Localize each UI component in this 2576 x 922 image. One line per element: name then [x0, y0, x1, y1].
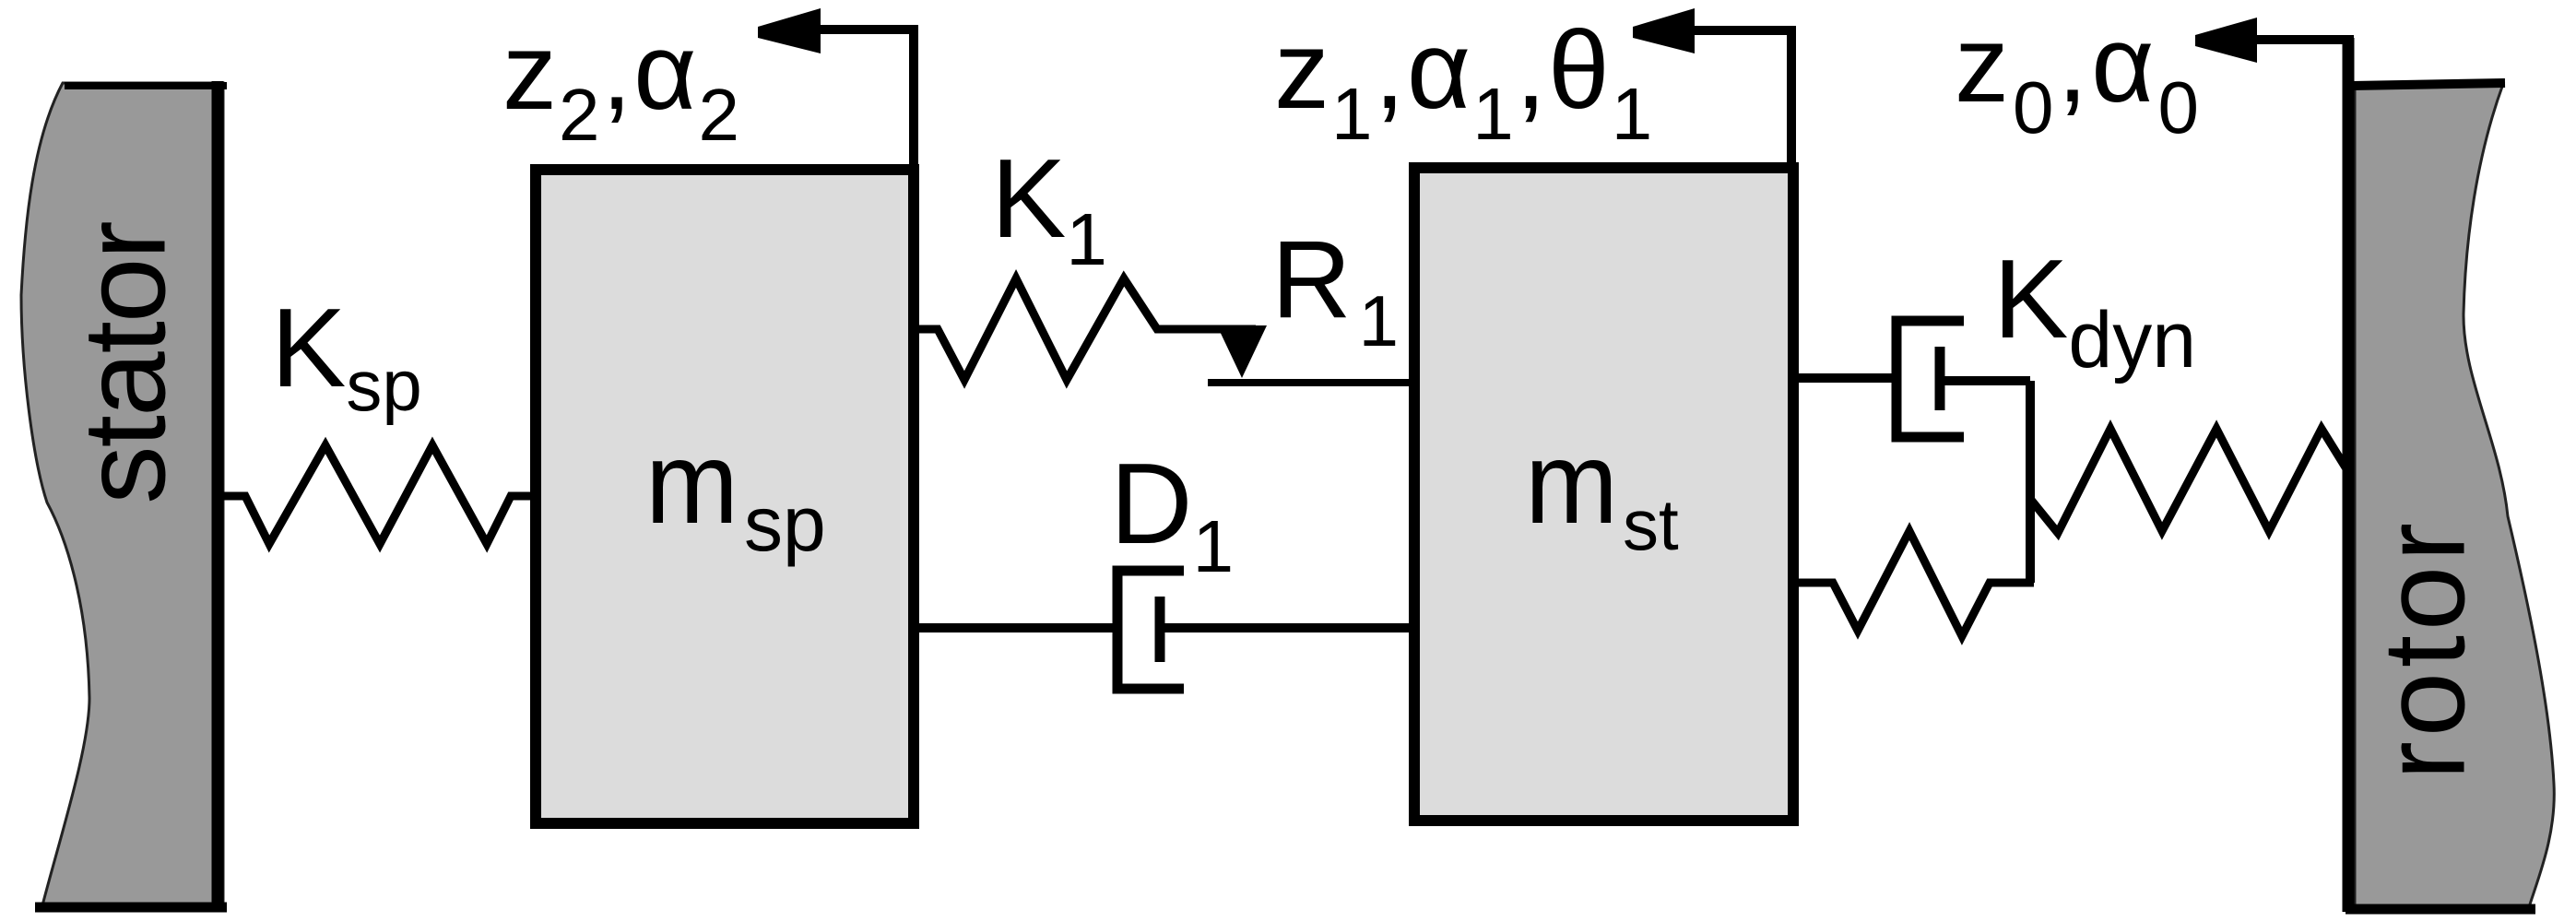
arrow z0 horizontal [2248, 35, 2354, 44]
arrow z0 head [2195, 18, 2257, 63]
rotor body [2355, 84, 2554, 907]
arrow z1 head [1633, 8, 1695, 53]
rotor bottom edge [2346, 904, 2535, 915]
stator bottom edge [35, 903, 227, 913]
svg-text:m: m [1525, 418, 1618, 548]
arrow z1 vertical [1787, 30, 1796, 168]
rotor left edge (with arrow stem) [2343, 38, 2355, 912]
spring small (parallel) [1799, 531, 2034, 636]
damper D1 piston [1155, 597, 1165, 662]
damper D1 cylinder [1117, 571, 1184, 689]
node R1 line [1208, 379, 1414, 386]
arrow z2 horizontal [811, 25, 918, 34]
svg-text:m: m [645, 418, 739, 548]
svg-text:st: st [1623, 484, 1679, 565]
svg-text:sp: sp [744, 480, 826, 567]
arrow z2 vertical [909, 30, 918, 170]
arrow z2 head [758, 8, 821, 53]
damper Kdyn cylinder [1897, 321, 1964, 437]
damper Kdyn right rod [1940, 376, 2030, 385]
svg-text:rotor: rotor [2358, 518, 2488, 780]
stator body [21, 83, 223, 905]
svg-text:stator: stator [59, 221, 190, 503]
stator right edge [212, 81, 224, 912]
damper Kdyn left rod [1799, 373, 1897, 383]
mass m_st [1414, 168, 1793, 821]
spring Kdyn main [2030, 429, 2350, 533]
damper Kdyn piston [1935, 347, 1945, 410]
damper D1 left rod [915, 623, 1117, 632]
stator top edge [65, 82, 227, 89]
damper D1 right rod [1160, 623, 1414, 632]
spring Ksp [223, 445, 533, 544]
rotor top edge [2352, 83, 2505, 86]
arrow z1 horizontal [1685, 26, 1796, 35]
contact R1 triangle [1217, 325, 1267, 378]
mass m_sp [536, 170, 914, 823]
spring K1 [915, 278, 1256, 380]
wire bend down [2026, 381, 2035, 583]
